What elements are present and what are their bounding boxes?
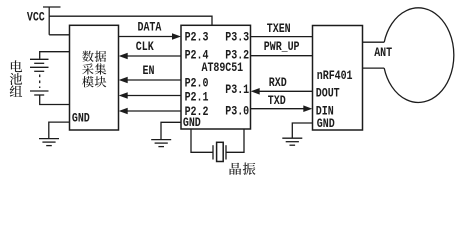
svg-text:nRF401: nRF401 xyxy=(317,69,353,83)
svg-text:DATA: DATA xyxy=(138,21,162,35)
svg-text:EN: EN xyxy=(143,64,155,78)
svg-text:GND: GND xyxy=(72,112,90,126)
svg-text:PWR_UP: PWR_UP xyxy=(264,40,300,54)
svg-text:P2.1: P2.1 xyxy=(185,91,209,105)
svg-text:VCC: VCC xyxy=(27,11,45,25)
svg-text:AT89C51: AT89C51 xyxy=(202,61,244,75)
svg-text:RXD: RXD xyxy=(269,76,287,90)
svg-text:P2.0: P2.0 xyxy=(185,77,209,91)
svg-text:CLK: CLK xyxy=(136,40,154,54)
svg-text:TXD: TXD xyxy=(268,94,286,108)
svg-text:DOUT: DOUT xyxy=(316,87,340,101)
svg-text:P2.3: P2.3 xyxy=(185,30,209,44)
svg-text:P3.3: P3.3 xyxy=(225,30,249,44)
svg-text:TXEN: TXEN xyxy=(267,22,291,36)
svg-text:GND: GND xyxy=(317,117,335,131)
svg-text:P3.0: P3.0 xyxy=(225,105,249,119)
svg-text:ANT: ANT xyxy=(374,46,392,60)
svg-text:P3.1: P3.1 xyxy=(225,83,249,97)
svg-text:GND: GND xyxy=(183,116,201,130)
